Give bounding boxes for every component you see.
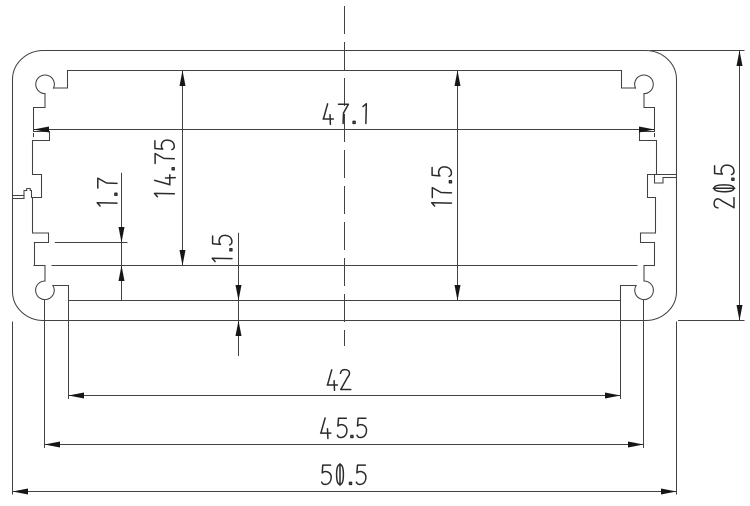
- ext stub 47.1 right: [654, 133, 656, 137]
- label 1.5: [212, 235, 232, 261]
- boss BL notch: [53, 286, 69, 301]
- left wall bottom segment: [34, 243, 36, 266]
- boss TL exit stub: [34, 94, 46, 108]
- ledge long line: [52, 265, 637, 267]
- arrow 1.7 down-outside: [119, 227, 125, 243]
- label 14.75: [155, 140, 176, 197]
- arrow 1.5 down-outside: [236, 285, 242, 301]
- right wall notch lower: [641, 233, 656, 243]
- label 47.1: [323, 104, 366, 125]
- left joint nub: [24, 189, 30, 199]
- ext line 50.5 left: [12, 322, 14, 495]
- ext line 20.5 top: [650, 50, 745, 52]
- ext line 50.5 right: [676, 322, 678, 495]
- ext line 20.5 bottom: [678, 320, 745, 322]
- boss BR notch: [621, 286, 637, 301]
- outer shell rounded rectangle: [13, 51, 677, 321]
- ext line 45.5 right: [643, 300, 645, 448]
- dim line 47.1: [34, 129, 655, 131]
- ext line 45.5 left: [44, 300, 46, 448]
- arrow 20.5 down: [737, 305, 743, 321]
- arrow 42 right: [605, 393, 621, 399]
- dim line 42: [69, 395, 621, 397]
- right joint groove: [655, 175, 664, 184]
- inner floor line: [69, 300, 621, 302]
- right wall mid segment: [656, 141, 658, 175]
- label 50.5: [322, 464, 366, 485]
- left joint slit lower line: [13, 198, 25, 200]
- arrow 20.5 up: [737, 51, 743, 67]
- label 1.7: [97, 178, 117, 206]
- arrow 47.1 left: [34, 127, 50, 133]
- arrow 17.5 down: [455, 285, 461, 301]
- screw boss top-right: [635, 75, 654, 94]
- left wall lower segment: [32, 198, 34, 234]
- screw boss top-left: [36, 75, 55, 94]
- arrow 42 left: [69, 393, 85, 399]
- arrow 17.5 up: [455, 71, 461, 87]
- right wall bottom segment: [654, 243, 656, 266]
- dim line 1.7: [121, 173, 123, 300]
- boss TR exit stub: [644, 94, 655, 108]
- screw boss bottom-right: [635, 281, 654, 300]
- inner ceiling line: [68, 70, 622, 72]
- arrow 14.75 up: [180, 71, 186, 87]
- arrow 50.5 left: [13, 489, 29, 495]
- boss BL entry stub: [44, 266, 46, 282]
- left wall notch lower: [33, 233, 49, 243]
- left ledge short: [34, 265, 45, 267]
- left joint slit upper line: [13, 195, 25, 197]
- right ceiling step: [622, 71, 636, 89]
- right ledge short: [644, 265, 655, 267]
- left ceiling step: [54, 71, 68, 89]
- right joint boss: [648, 175, 657, 198]
- arrow 45.5 left: [45, 442, 61, 448]
- right wall lower segment: [655, 198, 657, 234]
- left wall upper segment: [33, 108, 35, 132]
- label 45.5: [321, 418, 367, 439]
- arrow 1.7 up-outside: [119, 266, 125, 282]
- ext line 42 left: [68, 301, 70, 399]
- right joint slit lower line: [663, 177, 677, 179]
- right wall upper segment: [654, 108, 656, 132]
- right wall notch upper: [640, 132, 657, 141]
- arrow 47.1 right: [639, 127, 655, 133]
- arrow 45.5 right: [628, 442, 644, 448]
- left wall notch upper: [33, 132, 50, 141]
- label 42: [327, 370, 351, 391]
- label 20.5: [713, 165, 734, 208]
- boss BR entry stub: [643, 266, 645, 282]
- arrow 14.75 down: [180, 250, 186, 266]
- dim line 14.75: [182, 71, 184, 266]
- dim line 45.5: [45, 444, 644, 446]
- screw boss bottom-left: [36, 281, 55, 300]
- centerline vertical dash-dot: [344, 6, 346, 346]
- arrow 1.5 up-outside: [236, 321, 242, 337]
- dim line 20.5: [739, 51, 741, 321]
- dim line 50.5: [13, 491, 677, 493]
- ext line 1.7 upper: [55, 242, 128, 244]
- label 17.5: [432, 167, 452, 206]
- ext stub 47.1 left: [33, 133, 35, 137]
- arrow 50.5 right: [661, 489, 677, 495]
- ext line 42 right: [620, 301, 622, 399]
- right joint slit upper line: [648, 174, 677, 176]
- dim line 1.5: [238, 233, 240, 356]
- left joint boss: [30, 175, 41, 198]
- left wall mid segment: [32, 141, 34, 175]
- dim line 17.5: [457, 71, 459, 301]
